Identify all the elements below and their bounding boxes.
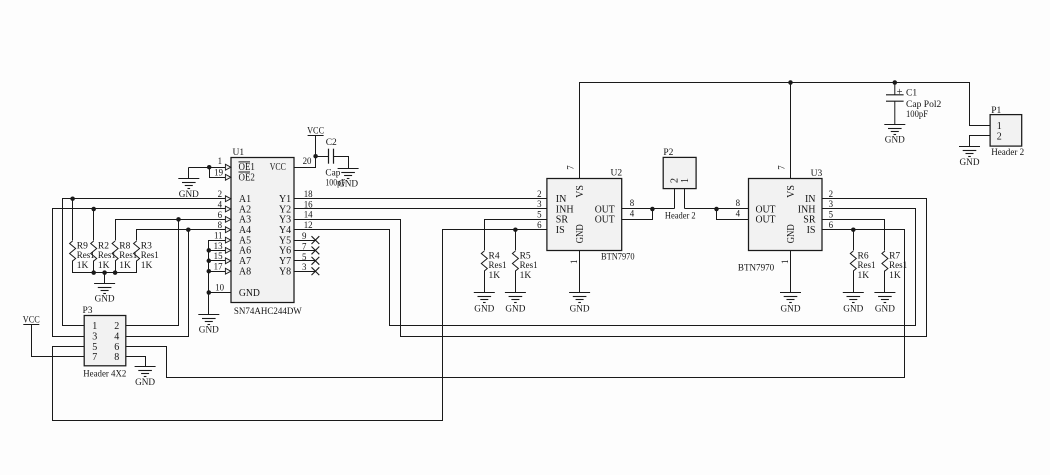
- wire GND stem OE: [188, 168, 190, 179]
- junction R6 top: [851, 227, 856, 232]
- svg-text:14: 14: [304, 210, 313, 220]
- svg-text:Res1: Res1: [889, 261, 907, 271]
- svg-text:U3: U3: [811, 169, 823, 179]
- wire U1 pin10 GND stub: [209, 292, 231, 294]
- wire U1 pin20 to VCC: [295, 136, 316, 168]
- svg-text:Y4: Y4: [279, 225, 291, 236]
- svg-text:9: 9: [302, 231, 307, 241]
- resistor R9: [70, 241, 95, 271]
- wire P3 pin8 to ground: [126, 357, 146, 367]
- svg-text:4: 4: [114, 331, 119, 342]
- resistor R8: [112, 241, 137, 271]
- resistor R5: [512, 251, 537, 281]
- wire P2 to U3 OUT8: [685, 208, 749, 210]
- svg-text:A6: A6: [239, 246, 251, 257]
- svg-text:5: 5: [829, 210, 834, 220]
- wire resistor bottom rail: [73, 261, 137, 273]
- junction VCC C2: [313, 154, 318, 159]
- junction rail A8: [207, 269, 212, 274]
- junction C1 top rail: [893, 80, 898, 85]
- wire R2 bottom lead: [93, 261, 95, 273]
- svg-text:7: 7: [92, 352, 97, 363]
- svg-text:U1: U1: [233, 148, 245, 158]
- svg-text:8: 8: [114, 352, 119, 363]
- ground P3 pin8: [135, 367, 156, 388]
- resistor R6: [850, 251, 875, 281]
- svg-text:Cap Pol2: Cap Pol2: [906, 100, 942, 110]
- svg-text:10: 10: [215, 283, 224, 293]
- svg-text:+: +: [897, 87, 903, 98]
- wire U2 OUT8 to P2: [622, 208, 675, 210]
- wire Y3 to U3 IN: [295, 199, 927, 337]
- svg-text:2: 2: [218, 189, 222, 199]
- wire to capacitor C2: [316, 156, 329, 158]
- ground R5: [505, 293, 526, 315]
- wire Y8 stub no-connect: [295, 271, 316, 273]
- svg-text:2: 2: [537, 189, 541, 199]
- ground P1: [959, 147, 980, 168]
- wire A5-A8 ground rail: [209, 241, 226, 315]
- svg-text:IS: IS: [807, 225, 816, 236]
- svg-text:GND: GND: [875, 304, 895, 314]
- wire Y1 to U2 IN: [295, 198, 547, 200]
- ground resistor rail: [94, 284, 115, 305]
- no-connect X Y7: [312, 257, 320, 265]
- svg-text:Header 4X2: Header 4X2: [83, 370, 126, 380]
- wire U3 GND pin: [790, 251, 792, 293]
- power VCC P3: [23, 315, 40, 325]
- wire R4 to ground: [484, 271, 486, 293]
- svg-text:OUT: OUT: [595, 215, 615, 226]
- no-connect X Y6: [312, 247, 320, 255]
- svg-text:2: 2: [114, 321, 119, 332]
- svg-text:1K: 1K: [489, 271, 501, 281]
- svg-text:VS: VS: [575, 185, 586, 198]
- svg-text:OE2: OE2: [239, 172, 255, 183]
- ground R6: [843, 293, 864, 315]
- resistor R7: [882, 251, 907, 281]
- svg-text:GND: GND: [575, 224, 586, 243]
- svg-text:INH: INH: [798, 204, 816, 215]
- ground U2: [569, 293, 590, 315]
- svg-text:SN74AHC244DW: SN74AHC244DW: [234, 307, 302, 317]
- svg-text:Res1: Res1: [520, 261, 538, 271]
- U3 pin numbers: [736, 165, 834, 264]
- junction U3 VS top rail: [788, 80, 793, 85]
- svg-text:VCC: VCC: [270, 162, 286, 173]
- svg-text:19: 19: [214, 167, 223, 177]
- svg-text:GND: GND: [199, 326, 219, 336]
- wire U2 VS to top rail: [580, 83, 991, 179]
- junction R5 top: [513, 227, 518, 232]
- connector P2 Header 2: [663, 148, 696, 222]
- wire Y4 to U3 INH: [295, 209, 916, 326]
- svg-text:GND: GND: [474, 304, 494, 314]
- wire C2 to ground: [334, 157, 349, 169]
- junction R2 bottom: [91, 270, 96, 275]
- junction U2 OUT: [650, 207, 655, 212]
- wire Y7 stub no-connect: [295, 260, 316, 262]
- junction U3 OUT: [714, 207, 719, 212]
- svg-text:6: 6: [829, 220, 834, 230]
- svg-text:17: 17: [214, 262, 223, 272]
- power VCC top: [307, 126, 324, 136]
- svg-text:Header 2: Header 2: [665, 212, 696, 222]
- wire A8 stub: [209, 271, 226, 273]
- junction R2 top: [91, 207, 96, 212]
- wire R9 lead: [72, 199, 74, 241]
- wire R5 to ground: [515, 271, 517, 293]
- svg-text:Y8: Y8: [279, 267, 291, 278]
- svg-text:3: 3: [92, 331, 97, 342]
- svg-text:A4: A4: [239, 225, 251, 236]
- junction gnd stem: [102, 270, 107, 275]
- wire pin19 branch: [210, 168, 226, 178]
- junction at OE wire: [207, 165, 212, 170]
- svg-text:A7: A7: [239, 256, 251, 267]
- wire U2 SR to R4: [485, 220, 547, 251]
- svg-text:12: 12: [304, 220, 313, 230]
- svg-text:GND: GND: [505, 304, 525, 314]
- svg-text:11: 11: [214, 231, 223, 241]
- op-amp U2 BTN7970: [547, 169, 635, 263]
- svg-text:2: 2: [829, 189, 833, 199]
- svg-text:6: 6: [537, 220, 542, 230]
- no-connect X Y8: [312, 267, 320, 275]
- wire U2 OUT4 loop: [622, 209, 653, 220]
- U2 pin numbers: [537, 165, 635, 264]
- svg-text:1: 1: [680, 178, 691, 183]
- svg-text:GND: GND: [843, 304, 863, 314]
- svg-text:6: 6: [218, 210, 223, 220]
- wire Y6 stub no-connect: [295, 250, 316, 252]
- svg-text:P1: P1: [991, 106, 1001, 116]
- svg-text:8: 8: [630, 198, 635, 208]
- junction A4 to P3 pin4: [186, 227, 191, 232]
- ground R4: [474, 293, 495, 315]
- junction A3 to P3 pin2: [176, 217, 181, 222]
- svg-text:U2: U2: [611, 169, 623, 179]
- connector P1 Header 2: [990, 106, 1024, 158]
- wire R6 to ground: [853, 271, 855, 293]
- wire R8 bottom lead: [115, 261, 117, 273]
- svg-text:4: 4: [736, 209, 741, 219]
- wire A6 stub: [209, 250, 226, 252]
- junction rail A7: [207, 259, 212, 264]
- svg-text:20: 20: [303, 156, 312, 166]
- junction R9 top: [70, 196, 75, 201]
- svg-text:4: 4: [218, 199, 223, 209]
- svg-text:OUT: OUT: [756, 204, 776, 215]
- svg-text:1K: 1K: [77, 261, 89, 271]
- resistor R3: [134, 241, 159, 271]
- op-amp U3 BTN7970: [738, 169, 823, 273]
- svg-text:VCC: VCC: [23, 315, 40, 325]
- resistor R2: [91, 241, 116, 271]
- svg-text:GND: GND: [95, 294, 115, 304]
- svg-text:2: 2: [669, 178, 680, 183]
- wire U3 SR to R7: [823, 220, 885, 251]
- ground OE: [178, 179, 199, 201]
- svg-text:3: 3: [829, 199, 834, 209]
- wire R5 lead: [515, 230, 517, 251]
- svg-text:7: 7: [777, 165, 787, 170]
- svg-text:BTN7970: BTN7970: [601, 253, 635, 263]
- svg-text:5: 5: [537, 210, 542, 220]
- wire R6 lead: [853, 230, 855, 251]
- svg-text:4: 4: [630, 209, 635, 219]
- ground U1 rail: [198, 315, 219, 336]
- svg-text:1K: 1K: [98, 261, 110, 271]
- svg-text:1: 1: [569, 260, 579, 264]
- wire A7 stub: [209, 260, 226, 262]
- svg-text:1: 1: [218, 156, 222, 166]
- wire P3 pin5 to U2 IS net: [53, 230, 547, 421]
- op-amp U1 SN74AHC244DW buffer: [231, 148, 302, 317]
- svg-text:15: 15: [214, 251, 223, 261]
- svg-text:1K: 1K: [141, 261, 153, 271]
- svg-text:7: 7: [302, 241, 307, 251]
- wire P1 pin2 to ground: [970, 136, 991, 147]
- U1 pin numbers: [214, 156, 314, 293]
- svg-text:1: 1: [997, 121, 1002, 132]
- wire P3 pin7 to VCC: [32, 325, 85, 357]
- resistor R4: [481, 251, 506, 281]
- svg-text:P3: P3: [83, 306, 93, 316]
- svg-text:GND: GND: [960, 158, 980, 168]
- wire Y5 stub no-connect: [295, 240, 316, 242]
- svg-text:GND: GND: [135, 378, 155, 388]
- svg-text:Y7: Y7: [279, 256, 291, 267]
- wire U2 GND pin: [579, 251, 581, 293]
- svg-text:OUT: OUT: [756, 215, 776, 226]
- svg-text:GND: GND: [239, 288, 260, 299]
- wire A3 to P3 pin2: [126, 220, 179, 326]
- ground C2: [338, 169, 359, 190]
- wire U3 OUT4 loop: [717, 209, 749, 220]
- capacitor C2 Cap 100pF: [325, 138, 345, 188]
- svg-text:OUT: OUT: [595, 204, 615, 215]
- svg-text:GND: GND: [570, 304, 590, 314]
- wire R7 to ground: [884, 271, 886, 293]
- svg-text:Header 2: Header 2: [991, 148, 1024, 158]
- svg-text:3: 3: [302, 262, 307, 272]
- svg-text:Res1: Res1: [858, 261, 876, 271]
- svg-text:GND: GND: [885, 136, 905, 146]
- ground R7: [874, 293, 895, 315]
- svg-text:1K: 1K: [889, 271, 901, 281]
- wire Y2 to U2 INH: [295, 208, 547, 210]
- svg-text:Y6: Y6: [279, 246, 291, 257]
- svg-text:13: 13: [214, 241, 223, 251]
- svg-text:GND: GND: [786, 224, 797, 243]
- svg-text:VCC: VCC: [307, 126, 324, 136]
- wire net A1 from P3 pin1: [63, 199, 226, 326]
- svg-text:Cap: Cap: [325, 168, 340, 178]
- wire R2 lead: [93, 209, 95, 241]
- svg-text:Res1: Res1: [141, 251, 159, 261]
- svg-text:GND: GND: [781, 304, 801, 314]
- svg-text:INH: INH: [556, 204, 574, 215]
- wire net A3: [116, 220, 226, 241]
- svg-text:1: 1: [92, 321, 97, 332]
- wire U3 VS to top rail: [790, 83, 792, 179]
- svg-text:1K: 1K: [520, 271, 532, 281]
- svg-text:100pF: 100pF: [906, 110, 928, 120]
- svg-text:C2: C2: [326, 138, 337, 148]
- wire P2 left pin: [674, 189, 676, 209]
- connector P3 Header 4X2: [83, 306, 127, 380]
- svg-text:18: 18: [304, 189, 313, 199]
- svg-text:P2: P2: [663, 148, 673, 158]
- svg-text:BTN7970: BTN7970: [738, 263, 775, 273]
- svg-text:8: 8: [736, 198, 741, 208]
- ground C1: [884, 125, 905, 146]
- wire net A4: [137, 230, 226, 241]
- svg-text:1: 1: [780, 260, 790, 264]
- svg-text:VS: VS: [786, 185, 797, 198]
- junction R8 bottom: [113, 270, 118, 275]
- svg-text:3: 3: [537, 199, 542, 209]
- junction rail pin10: [207, 290, 212, 295]
- U1 input buffer triangles: [225, 164, 231, 274]
- svg-text:Y2: Y2: [279, 204, 291, 215]
- svg-text:1K: 1K: [119, 261, 131, 271]
- svg-text:IS: IS: [556, 225, 565, 236]
- svg-text:A8: A8: [239, 267, 251, 278]
- capacitor C1 Cap Pol2 100pF: [886, 83, 942, 125]
- wire net A2 from P3 pin3: [53, 209, 226, 337]
- svg-text:1K: 1K: [858, 271, 870, 281]
- wire P2 right pin: [684, 189, 686, 209]
- svg-text:A2: A2: [239, 204, 251, 215]
- wire A4 to P3 pin4: [126, 230, 189, 337]
- svg-text:2: 2: [997, 132, 1002, 143]
- svg-text:Res1: Res1: [489, 261, 507, 271]
- svg-text:7: 7: [566, 165, 576, 170]
- wire U1 pin1 pin19 to ground: [189, 167, 226, 169]
- svg-text:GND: GND: [338, 179, 358, 189]
- svg-text:C1: C1: [906, 89, 917, 99]
- svg-text:16: 16: [304, 199, 313, 209]
- svg-text:8: 8: [218, 220, 223, 230]
- no-connect X Y5: [312, 236, 320, 244]
- ground U3: [780, 293, 801, 315]
- wire gnd stem resistors: [104, 273, 106, 284]
- wire P3 pin6 to U3 IS net: [126, 230, 905, 378]
- junction rail A6: [207, 248, 212, 253]
